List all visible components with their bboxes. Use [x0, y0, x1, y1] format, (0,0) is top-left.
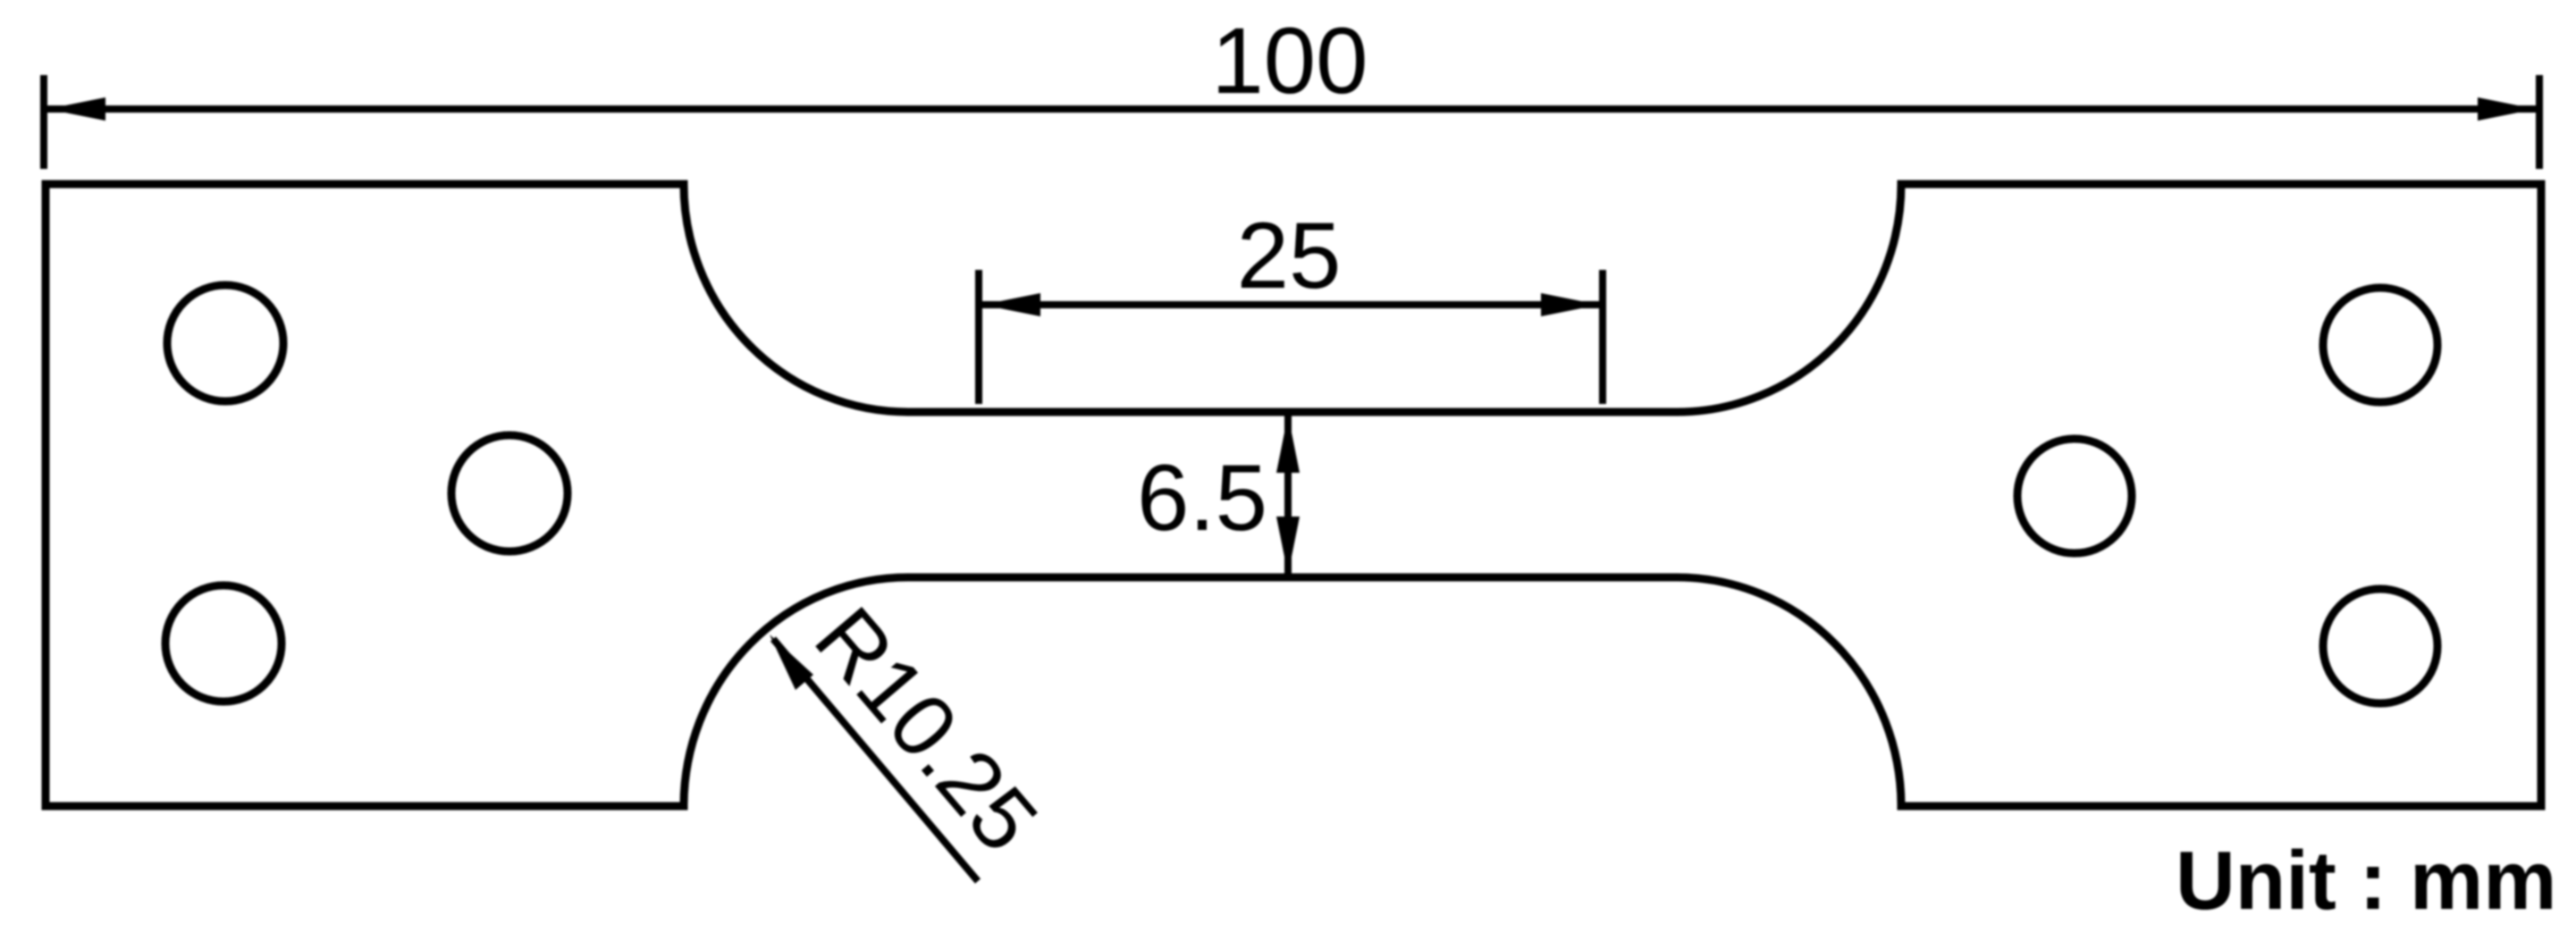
specimen outline (dogbone): [46, 184, 2541, 806]
hole left bottom: [165, 585, 282, 702]
dimension 6.5: bottom arrowhead: [1276, 517, 1300, 575]
dimension 100: dimension line: [47, 105, 2536, 113]
hole left middle: [451, 435, 568, 551]
dimension 25: dimension line: [982, 301, 1599, 308]
dimension 25: right arrowhead: [1541, 293, 1599, 316]
svg-text:6.5: 6.5: [1137, 446, 1267, 551]
hole left top: [167, 285, 283, 401]
hole right middle: [2017, 439, 2132, 553]
dimension 25: left arrowhead: [982, 293, 1040, 316]
radius leader line R10.25: [773, 639, 978, 881]
dimension 6.5: vertical dimension line: [1284, 412, 1292, 577]
dimension 100: left arrowhead: [47, 97, 105, 121]
svg-text:25: 25: [1237, 204, 1342, 308]
radius leader arrowhead: [770, 635, 813, 690]
dimension 6.5: top arrowhead: [1276, 415, 1300, 473]
dimension 25: left extension line: [975, 270, 982, 404]
hole right top: [2323, 288, 2437, 402]
dimension 25: right extension line: [1599, 270, 1606, 404]
dimension 100: left extension line: [40, 75, 47, 169]
dimension 100: right arrowhead: [2478, 97, 2536, 121]
dimension 100: right extension line: [2536, 75, 2543, 169]
svg-text:100: 100: [1211, 9, 1368, 113]
hole right bottom: [2323, 589, 2437, 703]
svg-text:Unit : mm: Unit : mm: [2176, 834, 2557, 927]
